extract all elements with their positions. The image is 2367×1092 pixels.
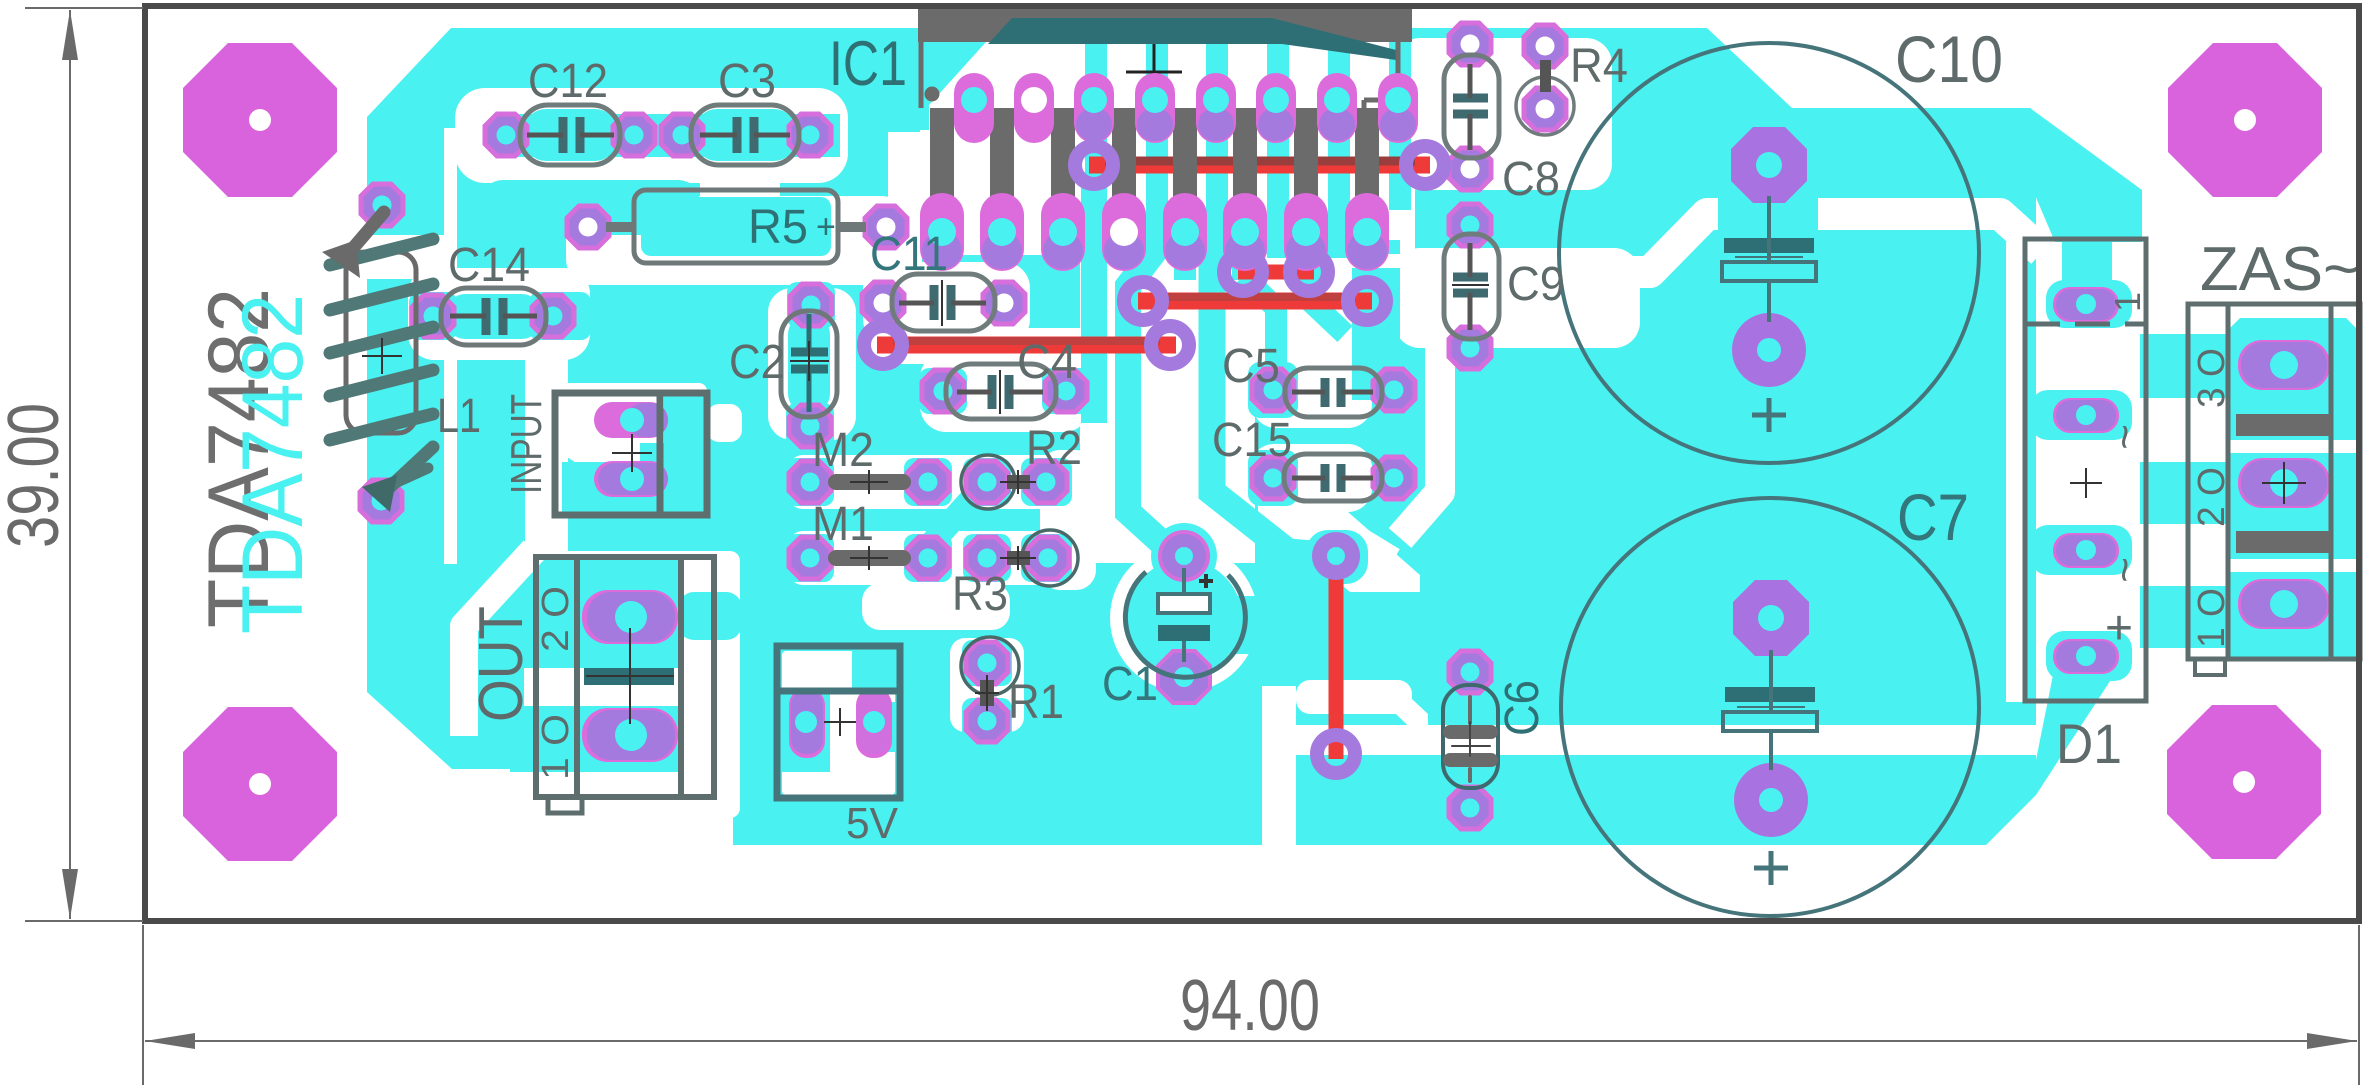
L1 top lead arrow <box>348 212 384 254</box>
pad islands M2 row <box>786 458 834 506</box>
pads R3 <box>966 537 1008 579</box>
pads C14 <box>412 295 454 337</box>
pads C2 <box>790 284 832 326</box>
clearance around OUT <box>524 551 740 818</box>
pad L1 bottom <box>360 480 402 522</box>
pad islands R1 <box>962 640 1012 686</box>
cap symbol C14 <box>450 298 537 335</box>
pad C7 positive octagon <box>1733 580 1809 656</box>
ZAS origin cross <box>2262 462 2306 504</box>
island inside C1 <box>1126 560 1242 676</box>
trace finger to C1 <box>1128 248 1172 552</box>
svg-text:TDA7482: TDA7482 <box>225 294 321 634</box>
clearance around C8 R4 <box>1394 38 1612 190</box>
pad C10 positive octagon <box>1731 127 1807 203</box>
svg-text:L1: L1 <box>437 390 481 443</box>
connector D1 box <box>2025 239 2146 701</box>
pads jumper J5 <box>1312 532 1360 580</box>
dimension bottom line <box>145 1040 2357 1042</box>
svg-text:39.00: 39.00 <box>0 403 74 548</box>
clearance around C15 <box>1250 444 1372 512</box>
copper islands <box>409 42 1818 772</box>
copper top strip above J2 <box>1200 240 1400 254</box>
svg-text:C9: C9 <box>1507 258 1565 311</box>
copper blob D1 pad1 <box>2046 280 2132 328</box>
clearance below J3 wire <box>1112 318 1364 334</box>
L1 body outline <box>346 252 416 433</box>
svg-text:M1: M1 <box>812 498 874 551</box>
pads C11 <box>862 282 904 324</box>
clearance corridor C3 to R5 <box>700 160 780 220</box>
capacitor C2 outline <box>781 311 837 417</box>
cap symbol C6 <box>1450 697 1491 781</box>
clearance middle zone below IC <box>1080 248 1255 563</box>
copper wedge left of IC1 <box>920 42 986 130</box>
cap symbol C3 <box>700 117 790 153</box>
IC1 tab <box>918 6 1412 42</box>
capacitor C15 outline <box>1284 454 1382 501</box>
svg-text:1 O: 1 O <box>2191 588 2233 648</box>
svg-text:94.00: 94.00 <box>1180 966 1320 1046</box>
pad jumper J1 right <box>1406 146 1444 184</box>
ZAS dark bars <box>2236 414 2331 436</box>
mounting hole top-right <box>2168 43 2322 197</box>
clearance channel C7 <box>1292 725 2036 755</box>
IC1 power amplifier TDA7482 <box>918 6 1418 271</box>
IC1 legs <box>930 108 1379 205</box>
connector ZAS box <box>2188 304 2360 675</box>
svg-text:INPUT: INPUT <box>502 394 551 494</box>
svg-text:M2: M2 <box>812 424 874 477</box>
pads R4 <box>1524 25 1566 67</box>
L1 origin cross <box>362 338 402 374</box>
pads R2 <box>966 461 1008 503</box>
resistor R4 body <box>1540 60 1551 92</box>
cap symbol C12 <box>527 117 614 153</box>
wire J4 red jumper C4 <box>877 341 1176 345</box>
jumper M2 bar <box>836 474 903 490</box>
wire J2 red jumper <box>1238 265 1314 280</box>
cap symbol C8 <box>1453 64 1488 150</box>
copper trace ZAS pad 3 <box>2140 334 2260 398</box>
capacitor C12 outline <box>520 105 620 165</box>
trace J2 right down <box>1309 276 1345 334</box>
clearance left strip beside L1 band <box>444 128 457 564</box>
svg-text:1: 1 <box>2107 292 2148 312</box>
svg-text:R3: R3 <box>952 568 1008 621</box>
resistor R4 circle <box>1516 77 1574 135</box>
clearance around R1 <box>950 638 1024 732</box>
L1 winding 3 <box>330 327 433 353</box>
svg-text:R5: R5 <box>748 201 808 254</box>
copper trace ZAS pad 2 <box>2140 462 2260 524</box>
IC1 pin1 dot <box>925 87 940 102</box>
capacitor C14 outline <box>441 288 546 345</box>
copper inside C14 <box>447 294 540 339</box>
IC1 vertical traces <box>1085 42 1107 258</box>
clearance around C4 <box>920 352 1090 432</box>
pads C12 <box>485 114 527 156</box>
jumper M1 bar <box>836 550 903 566</box>
clearance around C5 <box>1252 356 1372 428</box>
INPUT origin cross <box>612 434 652 472</box>
copper pour main <box>367 28 2358 845</box>
pads INPUT connector <box>594 402 668 438</box>
copper inside C12 <box>524 109 617 161</box>
pads C5 <box>1252 369 1294 411</box>
clearance around C11 <box>863 262 1030 345</box>
svg-text:+: + <box>2105 602 2133 655</box>
pad C1 positive <box>1160 532 1208 580</box>
silkscreen <box>441 43 1979 916</box>
mounting hole top-left <box>183 43 337 197</box>
clearance strip left of C8 <box>1396 88 1413 270</box>
cap symbol C5 <box>1292 378 1373 407</box>
copper inside R5 <box>641 197 831 256</box>
pad L1 top <box>361 184 403 226</box>
capacitor C3 outline <box>691 105 799 165</box>
trace column from J1 pad <box>1081 172 1107 423</box>
clearance below R3 <box>862 583 1010 630</box>
clearance around C2 <box>768 288 856 440</box>
wire J3 red jumper <box>1138 297 1372 301</box>
clearance around J2 <box>1221 252 1331 294</box>
dimension bottom extension right <box>2358 925 2360 1085</box>
capacitor C11 outline <box>892 274 995 331</box>
pads OUT connector <box>582 590 678 644</box>
resistor R3 body <box>1007 551 1030 565</box>
svg-text:C3: C3 <box>718 55 776 108</box>
inductor L1 <box>322 212 433 512</box>
traces through OUT <box>510 560 680 668</box>
resistor R1 circle <box>961 637 1019 695</box>
clearance row M1 R3 <box>788 531 1072 585</box>
svg-text:C10: C10 <box>1895 22 2003 96</box>
trace J2 left to C5 <box>1243 276 1276 378</box>
pad island C2 pads <box>787 282 835 328</box>
clearance around C9 <box>1394 248 1640 348</box>
pads C8 <box>1449 23 1491 65</box>
resistor R5 outline <box>634 190 838 263</box>
cap symbol C4 <box>957 370 1043 414</box>
L1 bottom lead arrow <box>390 447 433 487</box>
OUT dark bar <box>584 668 674 685</box>
clearance around C14 <box>408 268 590 360</box>
cap symbol C11 <box>899 280 986 326</box>
cap symbol C9 <box>1452 243 1489 330</box>
pad jumper J1 left <box>1075 146 1113 184</box>
5V origin cross <box>824 708 856 736</box>
pads R1 <box>966 642 1008 684</box>
clearance gap in L1 band <box>358 235 448 279</box>
svg-text:C8: C8 <box>1502 153 1560 206</box>
capacitor C4 outline <box>946 364 1056 419</box>
board outline <box>145 6 2359 921</box>
L1 winding 1 <box>330 239 433 265</box>
mounting hole bottom-right <box>2167 705 2321 859</box>
copper inside C3 <box>695 109 796 161</box>
pads C15 <box>1252 457 1294 499</box>
mounting hole bottom-left <box>183 707 337 861</box>
capacitor C5 outline <box>1285 368 1382 417</box>
clearance around wire C4 <box>858 328 1195 364</box>
pads jumper J2 <box>1224 253 1262 291</box>
svg-text:C12: C12 <box>528 55 608 108</box>
pads C6 <box>1449 651 1491 693</box>
clearance under IC1 body <box>920 42 1415 255</box>
capacitor C9 outline <box>1444 234 1499 339</box>
clearance left of IC1 <box>888 132 922 302</box>
clearance diagonal below C15 <box>1290 500 1392 562</box>
traces through 5V <box>852 651 898 691</box>
svg-text:ZAS~: ZAS~ <box>2200 235 2360 304</box>
clearance inside 5V <box>782 651 895 795</box>
resistor R3 circle <box>1022 530 1078 586</box>
svg-text:C14: C14 <box>448 239 530 292</box>
capacitor C6 outline <box>1443 685 1498 788</box>
L1 winding 4 <box>330 370 433 396</box>
clearance channel around OUT left <box>464 550 534 736</box>
svg-text:C5: C5 <box>1222 340 1280 393</box>
dimension bottom arrow left <box>145 1033 195 1049</box>
capacitor C7 symbol <box>1723 650 1817 885</box>
pads C9 <box>1449 204 1491 246</box>
svg-text:IC1: IC1 <box>829 29 907 99</box>
svg-text:C6: C6 <box>1496 680 1549 736</box>
trace R2 to M1 diagonal <box>930 495 975 545</box>
pads M2 <box>789 461 831 503</box>
IC1 top pads row <box>954 73 1418 143</box>
clearance notches ZAS <box>2226 440 2358 453</box>
jumper M2 cross <box>850 470 888 494</box>
svg-text:C4: C4 <box>1017 336 1077 389</box>
IC1 tab copper seen through (teal) <box>988 18 1396 60</box>
pad island C4 pads <box>919 368 967 414</box>
pads D1 <box>2053 287 2119 322</box>
resistor R2 circle <box>961 455 1015 509</box>
capacitor C10 symbol <box>1722 196 1816 432</box>
copper stub D1 pad 3 <box>2030 525 2132 575</box>
connector OUT box <box>536 557 714 813</box>
copper neck at C10 symbol <box>1718 196 1818 236</box>
dimension left arrow up <box>62 10 78 60</box>
copper trace through C12 C3 <box>498 114 840 157</box>
svg-text:D1: D1 <box>2056 712 2122 775</box>
svg-text:~: ~ <box>2100 424 2149 450</box>
svg-text:R2: R2 <box>1026 422 1082 475</box>
pads R5 <box>567 206 609 248</box>
resistor R2 body <box>1007 475 1030 489</box>
pads 5V connector <box>789 688 825 758</box>
cap symbol C2 <box>790 314 829 412</box>
copper ZAS column <box>2228 318 2358 660</box>
capacitor C8 outline <box>1444 55 1499 158</box>
svg-text:C7: C7 <box>1897 480 1969 554</box>
pad C7 negative round <box>1734 763 1808 837</box>
clearance channel below C9 <box>1400 342 1440 538</box>
wire J5 red jumper vertical <box>1329 551 1344 759</box>
svg-text:1 O: 1 O <box>535 714 577 780</box>
pads ZAS <box>2238 340 2330 390</box>
clearance left of D1 <box>2006 242 2026 702</box>
clearance channel C10 top <box>1600 214 2042 272</box>
D1 origin cross <box>2070 468 2102 498</box>
connector 5V box <box>777 646 900 798</box>
svg-text:C1: C1 <box>1102 658 1158 711</box>
capacitor C1 symbol <box>1158 568 1213 662</box>
clearance row M2 R2 <box>788 455 1072 509</box>
wire J1 red jumper <box>1089 161 1430 165</box>
pad islands C14 <box>409 292 457 340</box>
clearance around INPUT <box>545 383 707 443</box>
capacitor C10 circle <box>1559 43 1979 463</box>
dimension bottom extension left <box>142 925 144 1085</box>
svg-text:~: ~ <box>2100 557 2149 583</box>
pad islands C5 C15 left <box>1248 362 1298 418</box>
island below C12 <box>481 180 700 235</box>
pad islands M1 row <box>786 534 834 582</box>
capacitor C1 circle <box>1125 572 1245 677</box>
capacitor C7 circle <box>1561 498 1979 916</box>
clearance right of R2 R3 rows <box>1040 450 1096 590</box>
clearance channel right of C14 <box>525 279 568 569</box>
svg-text:2 O: 2 O <box>535 586 577 652</box>
IC1 origin cross <box>1126 44 1182 100</box>
dimension left line <box>69 10 71 919</box>
connector INPUT box <box>555 393 707 515</box>
pad C10 negative round <box>1732 313 1806 387</box>
pads C4 <box>922 370 964 412</box>
pads jumper J4 <box>864 326 902 364</box>
svg-text:C11: C11 <box>870 228 948 281</box>
svg-text:+: + <box>816 208 836 246</box>
dimension bottom arrow right <box>2307 1033 2357 1049</box>
svg-text:R1: R1 <box>1008 676 1064 729</box>
clearance top-right corner triangle <box>1707 28 2036 106</box>
clearance around C12 C3 <box>455 88 848 183</box>
L1 winding 5 <box>330 414 433 440</box>
clearance channels near jumper M3 <box>1262 686 1296 845</box>
pad C1 negative <box>1158 651 1210 703</box>
dimension left arrow down <box>62 869 78 919</box>
pads M1 <box>789 537 831 579</box>
IC1 body outline left <box>919 42 924 108</box>
clearance ring around C1 <box>1110 544 1258 692</box>
svg-text:R4: R4 <box>1570 40 1628 93</box>
copper inside C2 <box>788 316 830 412</box>
clearance regions (white) <box>358 28 2358 845</box>
copper trace to D1 pad 1 <box>2005 108 2142 242</box>
traces through INPUT <box>664 396 704 512</box>
resistor R1 body <box>980 680 994 706</box>
trace finger to jumper J5 <box>1212 250 1336 556</box>
svg-text:OUT: OUT <box>467 606 536 722</box>
svg-text:2 O: 2 O <box>2191 467 2233 527</box>
svg-text:C15: C15 <box>1212 414 1292 467</box>
clearance around R5 <box>566 196 908 285</box>
cap symbol C15 <box>1292 464 1373 492</box>
copper stub D1 pad 2 <box>2030 390 2132 440</box>
svg-text:5V: 5V <box>846 799 899 848</box>
IC1 body outline right <box>1364 42 1398 190</box>
pads jumper J3 <box>1124 282 1162 320</box>
dimension left extension bottom <box>25 920 143 922</box>
copper right of J2 zone <box>1352 268 1400 400</box>
pads C3 <box>661 114 703 156</box>
IC1 bottom pads row <box>920 193 1389 271</box>
copper trace ZAS pad 1 <box>2140 586 2260 648</box>
L1 winding 2 <box>330 284 433 310</box>
copper blob D1 pad 4 <box>2046 631 2132 681</box>
trace stubs into J2 pads <box>1232 250 1256 280</box>
svg-text:C2: C2 <box>729 336 785 389</box>
svg-text:3 O: 3 O <box>2191 348 2233 408</box>
dimension left extension top <box>25 7 143 9</box>
OUT origin cross <box>586 628 674 724</box>
clearance around J3 left pad <box>1116 282 1172 322</box>
OUT bottom tab <box>548 797 582 813</box>
